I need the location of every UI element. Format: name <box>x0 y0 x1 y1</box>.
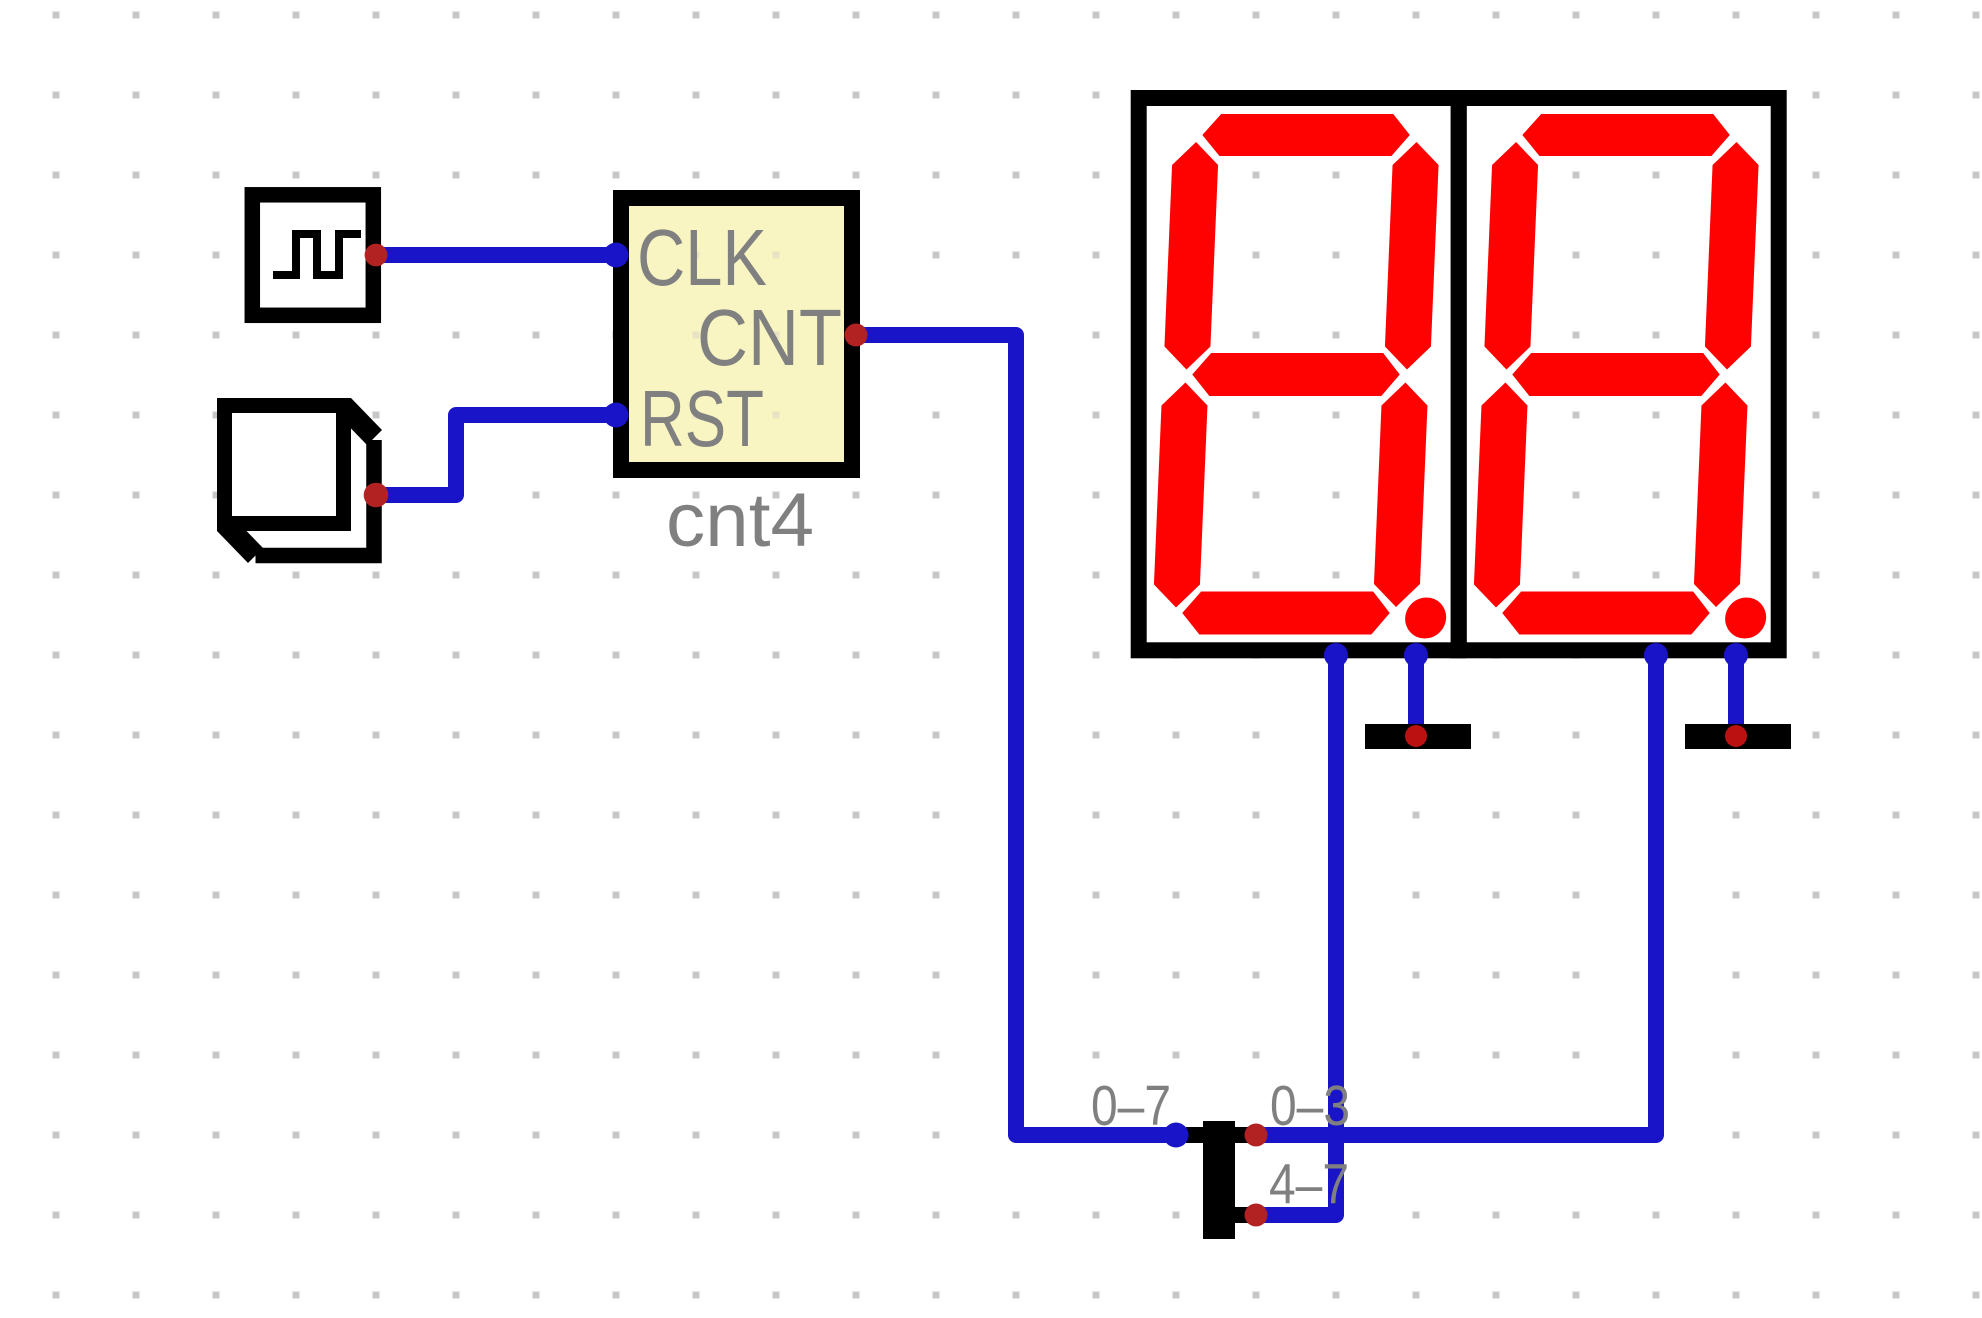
pin dot: ground GND1 pin <box>1405 725 1427 747</box>
pin dot: splitter output 4-7 <box>1245 1204 1268 1227</box>
push button S1 bottom-left depth edge <box>217 516 263 563</box>
push button S1 top-right depth edge <box>336 398 382 445</box>
pin dot: left display data input <box>1324 643 1348 667</box>
bus splitter SP1 lower output stub <box>1235 1207 1248 1223</box>
ground GND2 bar <box>1685 724 1791 749</box>
grid dots showing through cnt4 body <box>693 252 780 419</box>
pin dot: right display data input <box>1644 643 1668 667</box>
clock source CLK1 body <box>252 195 373 315</box>
wire net 4-7: splitter lower output to left display data pin <box>1256 655 1336 1215</box>
svg-text:CLK: CLK <box>637 213 767 302</box>
bus splitter SP1 input stub <box>1186 1127 1203 1143</box>
bus splitter SP1 upper output stub <box>1235 1127 1248 1143</box>
counter U1 cnt4 body <box>621 198 852 470</box>
wire CNT bus net: cnt4 CNT output to splitter input 0-7 <box>856 335 1176 1135</box>
wire net 0-3: splitter upper output to right display data pin <box>1256 655 1656 1135</box>
seven-segment display DS1 (left) digit <box>1152 114 1468 639</box>
pin dot: cnt4 RST input <box>604 403 629 428</box>
push button S1 front face <box>225 406 344 524</box>
bus splitter SP1 bar <box>1203 1121 1235 1239</box>
wire RST net: button output to cnt4 RST input <box>376 415 616 495</box>
seven-segment display DS2 (right) frame <box>1459 98 1779 650</box>
pin dot: cnt4 CLK input <box>604 243 629 268</box>
svg-text:0–7: 0–7 <box>1091 1074 1171 1138</box>
pin dot: right display dp input <box>1724 643 1748 667</box>
seven-segment display DS1 (left) frame <box>1139 98 1459 650</box>
svg-text:0–3: 0–3 <box>1270 1074 1350 1138</box>
svg-text:RST: RST <box>640 374 764 463</box>
pin dot: button S1 output <box>364 483 389 508</box>
pin dot: ground GND2 pin <box>1725 725 1747 747</box>
svg-text:4–7: 4–7 <box>1269 1153 1349 1217</box>
svg-text:CNT: CNT <box>697 293 842 382</box>
clock source CLK1 waveform glyph <box>273 234 361 275</box>
wire left display dp pin to ground GND1 <box>1408 655 1424 735</box>
pin dot: splitter output 0-3 <box>1245 1124 1268 1147</box>
wire CLK net: clock output to cnt4 CLK input <box>376 247 616 263</box>
pin dot: left display dp input <box>1404 643 1428 667</box>
seven-segment display DS2 (right) digit <box>1472 114 1788 639</box>
pin dot: cnt4 CNT output <box>845 324 868 347</box>
ground GND1 bar <box>1365 724 1471 749</box>
push button S1 back face <box>256 440 375 556</box>
pin dot: clock CLK1 output <box>365 244 388 267</box>
pin dot: splitter input 0-7 <box>1164 1123 1189 1148</box>
wire right display dp pin to ground GND2 <box>1728 655 1744 735</box>
svg-text:cnt4: cnt4 <box>666 478 814 563</box>
